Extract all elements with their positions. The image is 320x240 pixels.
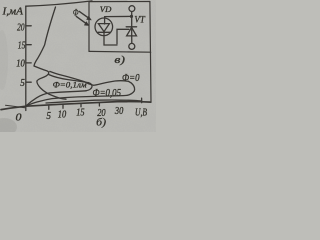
svg-text:VD: VD — [100, 4, 112, 14]
light arrow 1 head — [86, 16, 92, 21]
stray line crossing origin — [6, 105, 26, 107]
right frame border line — [150, 2, 151, 103]
svg-text:Ф: Ф — [73, 7, 79, 17]
wire VD top to junction — [105, 16, 132, 24]
on-state steep branch — [34, 7, 56, 66]
svg-text:10: 10 — [58, 109, 66, 120]
top slanted frame line from y-axis to inset box — [26, 1, 92, 6]
S-fold negative-resistance segment — [34, 66, 66, 99]
photodiode VD triangle — [98, 24, 109, 32]
wire VT triangle to bottom terminal — [131, 36, 133, 44]
svg-text:10: 10 — [16, 59, 25, 70]
photodiode VD circle — [95, 18, 113, 36]
top terminal circle — [129, 6, 135, 12]
svg-text:б): б) — [96, 116, 106, 128]
y tick I=15 — [26, 44, 31, 46]
thyristor VT cathode bar — [126, 26, 136, 28]
x-axis (U axis) — [1, 102, 151, 110]
x tick U=5 — [48, 106, 50, 109]
text labels — [1, 4, 147, 129]
curve Ф=0,1лм lower branch — [27, 91, 87, 106]
inset box bottom edge — [89, 50, 151, 53]
paper background — [0, 0, 156, 132]
svg-text:15: 15 — [76, 107, 84, 118]
svg-text:I,мА: I,мА — [1, 7, 24, 18]
x tick U=10 — [62, 105, 64, 108]
svg-text:в): в) — [114, 54, 125, 66]
light arrow 2 head — [84, 21, 90, 26]
inset box top edge — [89, 1, 150, 3]
svg-text:Ф=0,05: Ф=0,05 — [93, 88, 122, 99]
y tick I=10 — [26, 62, 31, 64]
svg-text:0: 0 — [16, 113, 22, 124]
svg-text:Ф=0,1лм: Ф=0,1лм — [53, 81, 87, 90]
y-axis (I axis) — [25, 6, 27, 110]
y tick I=5 — [26, 81, 31, 83]
curve Ф=0,05 upper fold-back branch — [50, 71, 129, 85]
svg-text:5: 5 — [46, 111, 51, 122]
curve Ф=0,1лм upper fold-back branch — [49, 75, 88, 83]
svg-text:Ф=0: Ф=0 — [122, 73, 140, 84]
wire top terminal to VT — [131, 12, 133, 36]
x tick U=20 — [98, 103, 100, 106]
photodiode VD cathode bar — [98, 31, 110, 33]
junction dot — [130, 15, 133, 18]
light arrow 1 — [79, 11, 88, 17]
wire VD bottom to gate riser — [104, 31, 117, 45]
thyristor VT gate wire — [117, 29, 129, 44]
svg-text:15: 15 — [18, 41, 26, 52]
svg-text:20: 20 — [17, 22, 25, 33]
x tick U=15 — [80, 104, 82, 107]
Ф=0 breakover upturn stub — [141, 98, 143, 103]
curve Ф=0,05 lower branch — [27, 95, 127, 105]
svg-text:VT: VT — [134, 15, 145, 25]
y tick I=20 — [26, 25, 31, 27]
light arrow 2 — [76, 16, 85, 23]
svg-text:5: 5 — [20, 78, 25, 89]
thyristor VT triangle — [127, 27, 137, 36]
svg-text:30: 30 — [114, 106, 123, 117]
curve Ф=0,1лм breakover tip — [86, 83, 92, 91]
curve Ф=0,05 breakover tip — [127, 81, 135, 95]
svg-text:U,В: U,В — [135, 107, 147, 118]
bottom terminal circle — [129, 43, 135, 49]
curve Ф=0 off-state branch with breakover upturn — [46, 100, 141, 103]
inset box left edge — [88, 2, 90, 52]
